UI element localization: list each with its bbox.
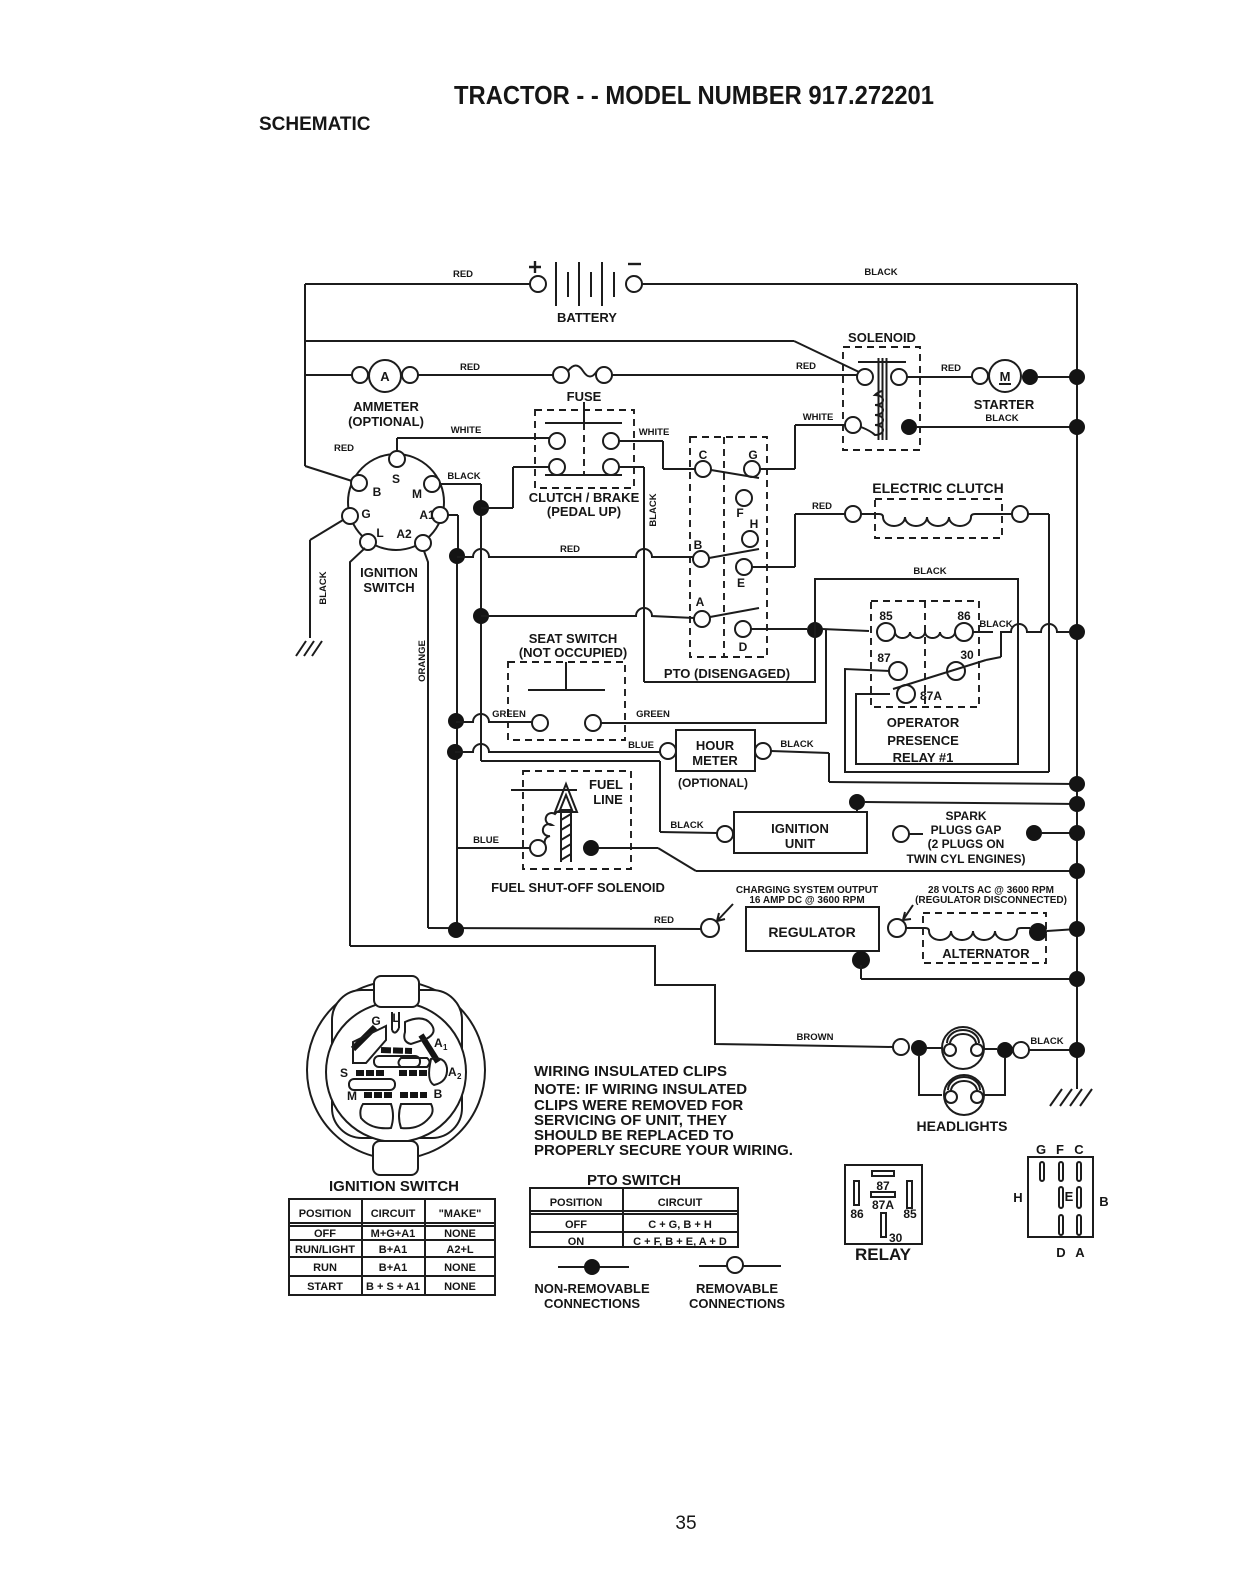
wire solenoid white to PTO G: [760, 412, 845, 469]
wire G pin to ground black: [310, 520, 343, 638]
svg-text:S: S: [392, 472, 400, 486]
svg-text:STARTER: STARTER: [974, 397, 1035, 412]
svg-text:B+A1: B+A1: [379, 1244, 407, 1256]
svg-text:A2: A2: [396, 527, 412, 541]
svg-text:G: G: [1036, 1142, 1046, 1157]
svg-text:FUEL SHUT-OFF SOLENOID: FUEL SHUT-OFF SOLENOID: [491, 880, 665, 895]
svg-text:HEADLIGHTS: HEADLIGHTS: [917, 1118, 1008, 1134]
svg-text:B: B: [1099, 1194, 1108, 1209]
svg-text:B+A1: B+A1: [379, 1262, 407, 1274]
svg-text:S: S: [340, 1066, 348, 1080]
svg-text:(OPTIONAL): (OPTIONAL): [348, 414, 424, 429]
svg-text:H: H: [750, 517, 759, 531]
clutch brake switch: [529, 402, 640, 519]
right bus wire: [1076, 284, 1078, 1089]
svg-text:BLACK: BLACK: [864, 267, 897, 278]
svg-text:TRACTOR - - MODEL NUMBER 917.2: TRACTOR - - MODEL NUMBER 917.272201: [454, 80, 934, 110]
ammeter A1: [348, 360, 424, 429]
fuse F1: [553, 366, 612, 405]
ignition switch circle: [342, 451, 448, 595]
svg-text:86: 86: [850, 1207, 864, 1221]
svg-text:RELAY #1: RELAY #1: [893, 750, 954, 765]
svg-text:86: 86: [957, 609, 971, 623]
relay component: [845, 1165, 922, 1264]
svg-text:NONE: NONE: [444, 1228, 476, 1240]
svg-text:PRESENCE: PRESENCE: [887, 733, 959, 748]
seat switch: [508, 631, 627, 740]
svg-text:WIRING INSULATED CLIPS: WIRING INSULATED CLIPS: [534, 1063, 727, 1080]
wire brown L to headlights: [350, 946, 893, 1047]
ignition unit: [670, 812, 909, 853]
solenoid: [843, 330, 920, 450]
wire ammeter left: [305, 374, 352, 376]
wire orange-red to regulator: [428, 915, 701, 938]
svg-text:IGNITION: IGNITION: [360, 565, 418, 580]
svg-text:E: E: [1065, 1189, 1074, 1204]
fuel shut-off solenoid: [491, 771, 665, 895]
svg-text:REMOVABLE: REMOVABLE: [696, 1281, 778, 1296]
wire battery to solenoid: [305, 341, 859, 372]
svg-text:RELAY: RELAY: [855, 1245, 912, 1264]
svg-text:FUSE: FUSE: [567, 389, 602, 404]
svg-text:H: H: [1013, 1190, 1022, 1205]
svg-text:87: 87: [877, 651, 891, 665]
svg-text:SPARK: SPARK: [945, 809, 986, 823]
wiring insulated clips note: [534, 1063, 793, 1159]
svg-text:BLUE: BLUE: [473, 835, 499, 846]
svg-text:PTO SWITCH: PTO SWITCH: [587, 1172, 681, 1189]
svg-text:BLACK: BLACK: [318, 571, 329, 604]
svg-text:A: A: [434, 1036, 443, 1050]
wire A2 pin orange down: [417, 551, 428, 928]
svg-text:B: B: [694, 538, 703, 552]
svg-text:BLACK: BLACK: [670, 820, 703, 831]
svg-text:ORANGE: ORANGE: [417, 640, 428, 682]
wire black ground spiral to 87A: [644, 566, 1018, 764]
svg-text:RED: RED: [560, 544, 580, 555]
wire ignition unit top to bus: [849, 794, 1085, 812]
svg-text:BLACK: BLACK: [780, 739, 813, 750]
svg-text:F: F: [1056, 1142, 1064, 1157]
svg-text:(2 PLUGS ON: (2 PLUGS ON: [928, 837, 1005, 851]
svg-text:(OPTIONAL): (OPTIONAL): [678, 776, 748, 790]
svg-text:16 AMP DC @ 3600 RPM: 16 AMP DC @ 3600 RPM: [749, 895, 864, 906]
svg-text:D: D: [739, 640, 748, 654]
ground right: [1050, 1089, 1092, 1106]
svg-text:FUEL: FUEL: [589, 777, 623, 792]
svg-text:OFF: OFF: [314, 1228, 336, 1240]
wire blue to fuel solenoid: [456, 835, 530, 848]
svg-text:30: 30: [960, 648, 974, 662]
svg-text:OPERATOR: OPERATOR: [887, 715, 960, 730]
svg-text:D: D: [1056, 1245, 1065, 1260]
alternator: [906, 913, 1085, 963]
svg-text:B: B: [373, 485, 382, 499]
wire M black to ignition unit: [481, 761, 717, 833]
svg-text:BLACK: BLACK: [1030, 1036, 1063, 1047]
svg-text:M: M: [1000, 369, 1011, 384]
ignition key switch rear view: [307, 976, 485, 1175]
wire PTO E red to electric clutch: [752, 501, 845, 567]
pto switch table: [530, 1172, 738, 1248]
wire blue to hour meter: [447, 740, 660, 760]
svg-text:A: A: [380, 369, 390, 384]
svg-text:F: F: [736, 506, 743, 520]
regulator: [701, 907, 906, 951]
svg-text:(NOT OCCUPIED): (NOT OCCUPIED): [519, 645, 627, 660]
svg-text:IGNITION SWITCH: IGNITION SWITCH: [329, 1178, 459, 1195]
spark plugs text: [906, 809, 1025, 866]
svg-text:CIRCUIT: CIRCUIT: [371, 1208, 416, 1220]
svg-text:CLUTCH / BRAKE: CLUTCH / BRAKE: [529, 490, 640, 505]
svg-text:"MAKE": "MAKE": [439, 1208, 482, 1220]
wire clutch TR white to PTO C: [619, 427, 695, 469]
headlights: [893, 1027, 1085, 1134]
svg-text:GREEN: GREEN: [636, 709, 670, 720]
svg-text:RED: RED: [334, 443, 354, 454]
svg-text:BROWN: BROWN: [797, 1032, 834, 1043]
wire hour meter black to bus: [771, 739, 1085, 792]
svg-text:85: 85: [903, 1207, 917, 1221]
svg-text:HOUR: HOUR: [696, 738, 735, 753]
svg-text:METER: METER: [692, 753, 738, 768]
svg-text:RED: RED: [654, 915, 674, 926]
wire green right seat to relay: [601, 630, 826, 723]
wire 87 to electric clutch return: [845, 669, 1049, 772]
svg-text:NOTE: IF WIRING INSULATED: NOTE: IF WIRING INSULATED: [534, 1081, 747, 1098]
svg-text:G: G: [361, 507, 370, 521]
wire regulator bottom to bus: [852, 951, 1085, 987]
wire green left seat: [448, 709, 532, 729]
wire fuse to solenoid red: [612, 361, 857, 375]
svg-text:RUN/LIGHT: RUN/LIGHT: [295, 1244, 355, 1256]
svg-text:C + F, B + E, A + D: C + F, B + E, A + D: [633, 1236, 727, 1248]
wire fuel solenoid to spark bus: [599, 848, 1085, 879]
svg-text:1: 1: [443, 1043, 448, 1052]
title: [259, 80, 934, 135]
svg-text:ELECTRIC CLUTCH: ELECTRIC CLUTCH: [872, 480, 1003, 496]
wire A1 red to PTO B: [449, 544, 693, 564]
wire red to B pin: [305, 443, 354, 481]
svg-text:START: START: [307, 1281, 343, 1293]
svg-text:LINE: LINE: [593, 792, 623, 807]
wire 86 black to bus: [973, 619, 1085, 660]
svg-text:BLUE: BLUE: [628, 740, 654, 751]
wire solenoid to starter red: [907, 363, 972, 377]
wire junction to PTO A: [473, 608, 694, 624]
svg-text:CIRCUIT: CIRCUIT: [658, 1197, 703, 1209]
svg-text:87A: 87A: [920, 689, 942, 703]
svg-text:BLACK: BLACK: [913, 566, 946, 577]
svg-text:30: 30: [889, 1231, 903, 1245]
battery: [529, 261, 642, 325]
ground left: [296, 641, 322, 656]
wire solenoid bottom black to right bus: [917, 413, 1085, 435]
alternator note: [903, 885, 1067, 920]
wire pto D to junction: [735, 621, 869, 654]
wire ammeter to fuse red: [418, 362, 553, 375]
svg-text:87: 87: [876, 1179, 890, 1193]
svg-text:B + S + A1: B + S + A1: [366, 1281, 420, 1293]
svg-text:SOLENOID: SOLENOID: [848, 330, 916, 345]
svg-text:(REGULATOR DISCONNECTED): (REGULATOR DISCONNECTED): [915, 895, 1067, 906]
legend removable: [689, 1257, 785, 1311]
svg-text:RED: RED: [453, 269, 473, 280]
svg-text:C: C: [1074, 1142, 1084, 1157]
svg-text:GREEN: GREEN: [492, 709, 526, 720]
svg-text:PROPERLY SECURE YOUR WIRING.: PROPERLY SECURE YOUR WIRING.: [534, 1142, 793, 1159]
svg-text:M: M: [347, 1089, 357, 1103]
svg-text:WHITE: WHITE: [451, 425, 482, 436]
svg-text:WHITE: WHITE: [803, 412, 834, 423]
svg-text:WHITE: WHITE: [639, 427, 670, 438]
svg-text:BLACK: BLACK: [447, 471, 480, 482]
svg-text:CONNECTIONS: CONNECTIONS: [544, 1296, 640, 1311]
wire electric clutch return: [1028, 514, 1049, 772]
wire L pin brown down: [350, 548, 365, 946]
svg-text:A1: A1: [419, 508, 435, 522]
hour meter: [660, 730, 771, 790]
svg-text:ALTERNATOR: ALTERNATOR: [942, 946, 1030, 961]
svg-text:BLACK: BLACK: [985, 413, 1018, 424]
svg-text:35: 35: [675, 1513, 696, 1534]
svg-text:UNIT: UNIT: [785, 836, 815, 851]
svg-text:REGULATOR: REGULATOR: [768, 924, 855, 940]
legend non-removable: [534, 1259, 650, 1311]
svg-text:CONNECTIONS: CONNECTIONS: [689, 1296, 785, 1311]
svg-text:L: L: [376, 526, 383, 540]
svg-text:RUN: RUN: [313, 1262, 337, 1274]
starter motor: [972, 360, 1085, 412]
svg-text:BLACK: BLACK: [648, 493, 659, 526]
svg-text:RED: RED: [812, 501, 832, 512]
operator presence relay: [871, 601, 986, 765]
wire A1 pin down: [448, 515, 458, 930]
svg-text:A2+L: A2+L: [446, 1244, 473, 1256]
svg-text:NONE: NONE: [444, 1262, 476, 1274]
wire battery minus black: [642, 267, 1077, 284]
svg-text:BLACK: BLACK: [979, 619, 1012, 630]
svg-text:2: 2: [457, 1072, 462, 1081]
wire clutch BR black down: [619, 467, 659, 682]
svg-text:C + G, B + H: C + G, B + H: [648, 1219, 712, 1231]
svg-text:A: A: [448, 1065, 457, 1079]
wire S pin white to clutch: [397, 425, 549, 451]
svg-text:ON: ON: [568, 1236, 585, 1248]
PTO switch: [664, 437, 790, 681]
svg-text:M: M: [412, 487, 422, 501]
svg-text:TWIN CYL ENGINES): TWIN CYL ENGINES): [906, 852, 1025, 866]
svg-text:BATTERY: BATTERY: [557, 310, 617, 325]
svg-text:E: E: [737, 576, 745, 590]
svg-text:IGNITION: IGNITION: [771, 821, 829, 836]
svg-text:SWITCH: SWITCH: [363, 580, 414, 595]
svg-text:G: G: [748, 448, 757, 462]
wire M pin black: [440, 467, 549, 761]
wire ignition unit to spark plugs: [909, 825, 1085, 841]
wire battery plus red: [305, 269, 530, 466]
svg-text:SEAT SWITCH: SEAT SWITCH: [529, 631, 618, 646]
svg-text:M+G+A1: M+G+A1: [371, 1228, 416, 1240]
svg-text:RED: RED: [460, 362, 480, 373]
svg-text:RED: RED: [941, 363, 961, 374]
charging system note: [717, 885, 878, 921]
svg-text:RED: RED: [796, 361, 816, 372]
svg-text:87A: 87A: [872, 1198, 894, 1212]
svg-text:NONE: NONE: [444, 1281, 476, 1293]
svg-text:A: A: [696, 595, 705, 609]
svg-text:C: C: [699, 448, 708, 462]
svg-text:85: 85: [879, 609, 893, 623]
electric clutch: [845, 480, 1028, 538]
svg-text:POSITION: POSITION: [550, 1197, 603, 1209]
svg-text:POSITION: POSITION: [299, 1208, 352, 1220]
svg-text:(PEDAL UP): (PEDAL UP): [547, 504, 621, 519]
svg-text:A: A: [1075, 1245, 1085, 1260]
ignition switch table: [289, 1178, 495, 1295]
svg-text:NON-REMOVABLE: NON-REMOVABLE: [534, 1281, 650, 1296]
svg-text:AMMETER: AMMETER: [353, 399, 419, 414]
svg-text:B: B: [434, 1087, 443, 1101]
svg-text:SCHEMATIC: SCHEMATIC: [259, 114, 371, 135]
connector component: [1013, 1142, 1108, 1260]
svg-text:OFF: OFF: [565, 1219, 587, 1231]
svg-text:PTO (DISENGAGED): PTO (DISENGAGED): [664, 666, 790, 681]
svg-text:PLUGS GAP: PLUGS GAP: [931, 823, 1002, 837]
